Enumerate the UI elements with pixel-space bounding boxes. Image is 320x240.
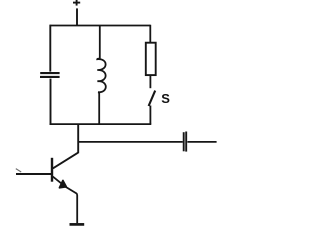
wire bottom rail <box>50 123 152 125</box>
wire left branch upper <box>49 25 51 72</box>
wire right branch upper <box>149 25 151 43</box>
wire drop to output node <box>77 124 79 153</box>
wire output line right <box>187 141 216 143</box>
transistor Q1 base bar <box>51 158 53 182</box>
wire resistor to switch <box>149 75 151 88</box>
transistor Q1 emitter arrow <box>60 181 67 188</box>
wire supply lead <box>76 8 78 26</box>
svg-text:S: S <box>161 91 170 106</box>
ground <box>70 223 85 226</box>
tick at base lead end <box>16 169 21 172</box>
wire output line left <box>78 141 183 143</box>
inductor L1 <box>97 59 106 94</box>
resistor R1 <box>146 43 156 75</box>
transistor Q1 collector lead <box>53 153 78 169</box>
wire base lead <box>16 173 52 175</box>
wire switch lower <box>149 106 151 125</box>
wire middle branch upper <box>99 26 101 59</box>
power + <box>73 0 80 6</box>
switch S1 blade <box>149 91 156 106</box>
capacitor C2 <box>184 132 187 152</box>
transistor Q1 emitter lead <box>53 177 77 224</box>
wire left branch lower <box>50 79 52 125</box>
wire top rail <box>50 25 151 27</box>
wire middle branch lower <box>98 92 100 124</box>
capacitor C1 <box>40 73 60 77</box>
